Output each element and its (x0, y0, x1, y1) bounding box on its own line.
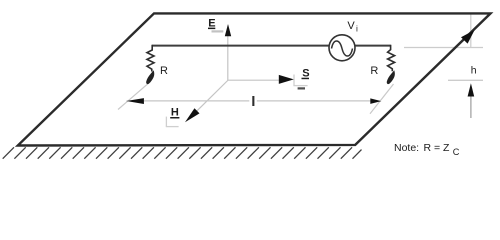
resistor R1 (left) (147, 45, 154, 72)
source V1 circle (329, 35, 355, 61)
ground plane (parallelogram) (18, 13, 491, 145)
resistor R2 current hook (387, 70, 395, 84)
H-field label (170, 107, 179, 119)
svg-text:R: R (370, 65, 378, 77)
ground hatching (3, 147, 362, 158)
dimension line l (right segment) (257, 100, 371, 102)
dimension l label (252, 96, 254, 106)
resistor R2 (right) (388, 45, 395, 72)
svg-text:V: V (347, 20, 355, 32)
E-field arrowhead (225, 24, 231, 36)
resistor R1 current hook (146, 70, 154, 84)
wire: H-field diagonal (197, 81, 228, 112)
dimension l right arrowhead (370, 98, 381, 104)
wire: left resistor drop diagonal (118, 82, 151, 110)
dimension h arrow stem (470, 96, 472, 118)
dimension line l (left segment) (144, 100, 250, 102)
svg-text:R: R (160, 65, 168, 77)
dimension h extension line (lower) (448, 79, 483, 81)
svg-text:i: i (356, 23, 358, 33)
plate edge direction arrowhead (461, 30, 475, 44)
source V1 label Vi (347, 20, 358, 34)
svg-text:h: h (471, 65, 477, 77)
dimension h vertical reference line (470, 15, 472, 48)
svg-text:H: H (171, 107, 179, 119)
wire: right resistor drop diagonal (370, 84, 394, 114)
H-field arrowhead (185, 108, 200, 122)
node H label box (166, 116, 179, 127)
svg-text:C: C (453, 147, 460, 157)
source V1 sine wave (332, 41, 353, 56)
svg-text:R = Z: R = Z (424, 142, 451, 154)
S (Poynting) arrowhead (279, 75, 294, 84)
note text (394, 142, 460, 157)
node S label box (293, 74, 309, 89)
dimension l left arrowhead (126, 98, 144, 104)
wire: upper conductor left segment (152, 45, 329, 47)
svg-text:Note:: Note: (394, 142, 419, 154)
wire: upper conductor right segment (355, 45, 391, 47)
svg-text:E: E (208, 17, 215, 29)
S label (302, 68, 310, 80)
wire: E-field stem / junction vertical line (227, 36, 229, 81)
E-field label (208, 17, 216, 29)
node E label box (206, 17, 224, 32)
dimension h arrowhead (468, 83, 475, 96)
dimension h extension line (upper) (404, 47, 483, 49)
wire: lower conductor segment toward S arrow (228, 79, 280, 81)
